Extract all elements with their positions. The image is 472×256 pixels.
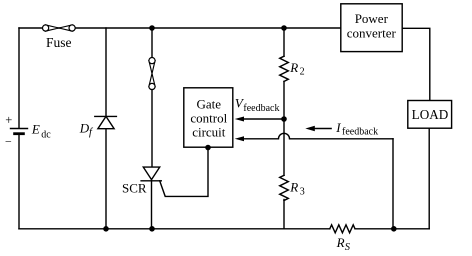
svg-text:3: 3	[300, 186, 305, 197]
svg-text:control: control	[190, 110, 227, 125]
svg-text:−: −	[5, 134, 12, 148]
svg-text:2: 2	[300, 67, 305, 78]
svg-text:Fuse: Fuse	[46, 35, 72, 50]
svg-text:circuit: circuit	[192, 124, 226, 139]
svg-text:R: R	[289, 60, 298, 75]
svg-text:R: R	[289, 180, 298, 195]
svg-text:I: I	[335, 120, 341, 135]
svg-text:feedback: feedback	[243, 103, 279, 114]
svg-text:Gate: Gate	[197, 96, 222, 111]
svg-text:converter: converter	[347, 26, 397, 41]
svg-text:dc: dc	[41, 129, 51, 140]
svg-text:SCR: SCR	[122, 180, 147, 195]
svg-text:Power: Power	[355, 11, 389, 26]
svg-text:S: S	[345, 242, 351, 253]
svg-text:E: E	[31, 122, 40, 137]
svg-text:+: +	[5, 113, 12, 127]
svg-text:R: R	[336, 235, 345, 250]
svg-text:feedback: feedback	[342, 127, 378, 138]
svg-text:LOAD: LOAD	[412, 107, 449, 122]
svg-text:f: f	[89, 127, 94, 138]
